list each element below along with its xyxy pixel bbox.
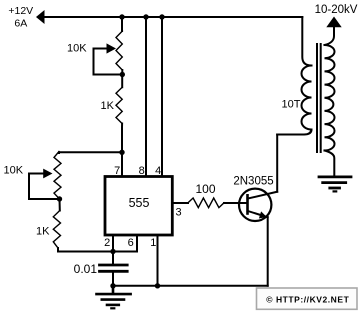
node junction pin7 / lower pot branch	[119, 150, 124, 155]
svg-text:2N3055: 2N3055	[233, 176, 273, 188]
node junction rail-pin8	[143, 14, 148, 19]
node junction pot1 bottom	[120, 72, 125, 77]
svg-text:1K: 1K	[101, 100, 115, 112]
op-amp/timer U1 555 body	[105, 177, 172, 236]
svg-text:6A: 6A	[14, 18, 27, 30]
svg-text:4: 4	[155, 165, 161, 177]
+12V input arrow	[36, 10, 45, 24]
svg-text:2: 2	[104, 237, 110, 249]
wire pin 2 down to junction	[112, 235, 114, 252]
svg-text:1: 1	[150, 237, 156, 249]
transformer T1 core	[317, 44, 321, 152]
node 10-20kV output arrow	[326, 17, 341, 28]
wire branch to lower pot	[59, 151, 122, 154]
svg-text:555: 555	[129, 196, 150, 210]
svg-text:6: 6	[128, 237, 134, 249]
node junction rail-pin4	[159, 14, 164, 19]
wire ground rail	[113, 285, 268, 287]
wire primary bottom to collector line	[277, 130, 311, 135]
wire pin 1 down to ground rail	[157, 235, 159, 286]
svg-text:10T: 10T	[282, 99, 301, 111]
resistor R 100 body	[188, 198, 224, 208]
svg-text:© HTTP://KV2.NET: © HTTP://KV2.NET	[266, 295, 349, 305]
node +12V supply label	[8, 5, 33, 30]
svg-text:100: 100	[195, 182, 215, 196]
ground symbol (transformer secondary)	[319, 177, 351, 192]
wire rail to pin 8	[145, 17, 147, 176]
capacitor C 0.01 plates	[100, 265, 128, 271]
wire Q1 collector up to transformer primary	[276, 135, 278, 192]
wire R4 bottom to pins 2/6 junction	[58, 248, 113, 252]
node junction pins 2/6 and C1	[110, 249, 115, 254]
wire rail to pot R1 top	[121, 17, 123, 31]
svg-text:3: 3	[176, 207, 182, 219]
svg-text:8: 8	[139, 165, 145, 177]
transformer T1 secondary winding	[325, 45, 335, 151]
wire pot1 to R2	[121, 75, 123, 88]
wire secondary bottom to ground	[325, 151, 335, 176]
resistor R 1K (top) body	[116, 87, 122, 123]
wire +12V top rail	[42, 16, 302, 18]
svg-text:10-20kV: 10-20kV	[315, 4, 358, 16]
node junction C1/ground	[110, 283, 115, 288]
potentiometer R 10K (top) wiper arrow	[94, 43, 117, 53]
transistor Q1 2N3055 body	[239, 189, 277, 221]
wire R2 bottom to pin7	[121, 124, 123, 177]
wire pot1 wiper to pot1 bottom (rheostat bracket)	[94, 49, 123, 75]
svg-text:1K: 1K	[36, 225, 50, 237]
ground symbol (main)	[97, 286, 131, 309]
wire secondary top to HV arrow	[325, 26, 335, 45]
wire pot1 bottom stub	[121, 70, 123, 75]
svg-text:0.01: 0.01	[74, 262, 98, 276]
wire pin 3 output	[172, 202, 188, 204]
node junction pot2 bottom	[57, 196, 62, 201]
wire Q1 emitter down to ground rail	[267, 217, 269, 286]
svg-text:10K: 10K	[4, 165, 24, 177]
wire C1 bottom plate to ground rail	[112, 273, 114, 286]
svg-text:+12V: +12V	[8, 5, 33, 17]
potentiometer R 10K (lower) wiper arrow	[29, 169, 53, 179]
transformer T1 primary winding 10T	[302, 66, 312, 130]
svg-text:7: 7	[114, 165, 120, 177]
resistor R 1K (lower) body	[53, 211, 60, 249]
potentiometer R 10K (lower) body	[54, 152, 61, 200]
kv2.net watermark badge	[257, 288, 358, 309]
wire junction to C1 top plate	[112, 252, 114, 264]
wire pin 6 down and left to junction	[113, 235, 137, 252]
wire pot2 to R4	[59, 199, 61, 211]
wire rail down to transformer primary	[302, 17, 311, 66]
wire rail to pin 4	[161, 17, 163, 176]
potentiometer R 10K (top) body	[116, 31, 122, 70]
node junction rail-pot1	[119, 14, 124, 19]
wire pot2 wiper to pot2 bottom (rheostat bracket)	[29, 174, 60, 200]
wire R5 to Q1 base	[224, 202, 248, 204]
node junction pin1/ground rail	[155, 283, 160, 288]
svg-text:10K: 10K	[67, 42, 87, 54]
